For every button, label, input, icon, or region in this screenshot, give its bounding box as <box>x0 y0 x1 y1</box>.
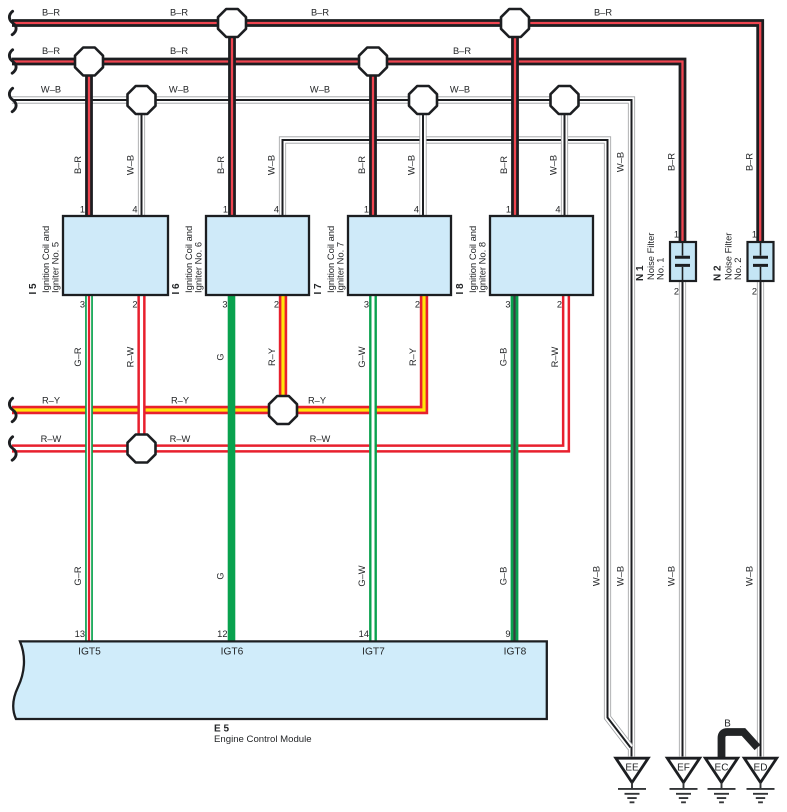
svg-text:W–B: W–B <box>169 85 189 95</box>
svg-text:I 7: I 7 <box>313 283 324 295</box>
junction node row 3 / I7 pin 4 <box>409 86 437 114</box>
svg-text:B–R: B–R <box>357 156 367 174</box>
svg-text:I 6: I 6 <box>171 283 182 295</box>
svg-text:1: 1 <box>674 230 679 240</box>
svg-text:W–B: W–B <box>667 566 677 586</box>
svg-text:B–R: B–R <box>73 156 83 174</box>
svg-text:4: 4 <box>274 205 279 215</box>
junction node row 1 / I6 pin 1 <box>218 9 246 37</box>
wire B-R bus row 1 (top) to noise filter N2 <box>12 23 760 242</box>
ignition coil and igniter I8 box <box>490 216 593 295</box>
wire W-B from noise filter N2 to ground ED <box>757 280 764 757</box>
svg-text:IGT8: IGT8 <box>504 646 527 657</box>
junction node row 2 / I7 pin 1 <box>359 48 387 76</box>
wire W-B from row 3 junction to I5 pin 4 <box>138 100 145 217</box>
svg-text:3: 3 <box>80 300 85 310</box>
svg-text:W–B: W–B <box>41 85 61 95</box>
noise filter N2 box <box>748 242 774 281</box>
svg-text:B–R: B–R <box>170 8 188 18</box>
svg-text:3: 3 <box>222 300 227 310</box>
svg-text:R–W: R–W <box>310 434 331 444</box>
shield B thick hook to ground EC <box>722 732 758 759</box>
junction node row 3 / I8 pin 4 <box>551 86 579 114</box>
svg-text:B–R: B–R <box>453 46 471 56</box>
svg-text:W–B: W–B <box>267 155 277 175</box>
svg-text:4: 4 <box>132 205 137 215</box>
svg-text:3: 3 <box>505 300 510 310</box>
ignition coil and igniter I6 box <box>206 216 309 295</box>
ground ED <box>744 758 776 782</box>
wire R-W bus row to I8 pin 2 <box>12 294 566 449</box>
svg-text:I 8: I 8 <box>455 283 466 295</box>
wire W-B from row 3 junction to I7 pin 4 <box>419 100 426 217</box>
svg-text:W–B: W–B <box>310 85 330 95</box>
svg-text:W–B: W–B <box>450 85 470 95</box>
svg-text:3: 3 <box>364 300 369 310</box>
svg-text:2: 2 <box>557 300 562 310</box>
svg-text:IGT5: IGT5 <box>78 646 101 657</box>
junction node row 1 / I8 pin 1 <box>501 9 529 37</box>
ignition coil and igniter I7 box <box>348 216 451 295</box>
svg-text:W–B: W–B <box>549 155 559 175</box>
ground EC <box>705 758 737 782</box>
wire B-R from row 1 junction to I6 pin 1 <box>228 23 236 217</box>
wire W-B from row 3 junction to I8 pin 4 <box>561 100 568 217</box>
svg-text:B–R: B–R <box>594 8 612 18</box>
svg-text:2: 2 <box>274 300 279 310</box>
svg-text:ED: ED <box>754 763 768 774</box>
break symbol row 3 <box>9 88 16 111</box>
earth symbol under ED <box>747 783 775 803</box>
svg-text:G–W: G–W <box>357 565 367 586</box>
svg-text:B–R: B–R <box>745 153 755 171</box>
wire R-Y bus row to I7 pin 2 <box>12 294 424 410</box>
break symbol row 2 <box>9 50 16 73</box>
svg-text:9: 9 <box>505 629 510 639</box>
svg-text:Ignition Coil andIgniter No. 6: Ignition Coil andIgniter No. 6 <box>183 226 203 293</box>
svg-text:R–Y: R–Y <box>171 396 189 406</box>
svg-text:Ignition Coil andIgniter No. 8: Ignition Coil andIgniter No. 8 <box>467 226 487 293</box>
wire G-W from I7 pin 3 to ECM IGT7 <box>369 294 377 642</box>
svg-text:2: 2 <box>132 300 137 310</box>
svg-text:B–R: B–R <box>499 156 509 174</box>
svg-text:G: G <box>216 572 226 579</box>
wire W-B bus row 3 to ground EE <box>12 100 632 757</box>
junction node row 2 / I5 pin 1 <box>75 48 103 76</box>
earth symbol under EE <box>618 783 646 803</box>
svg-text:W–B: W–B <box>745 566 755 586</box>
svg-text:G–R: G–R <box>73 566 83 585</box>
svg-text:I 5: I 5 <box>28 283 39 295</box>
svg-text:B–R: B–R <box>42 46 60 56</box>
svg-text:W–B: W–B <box>616 566 626 586</box>
svg-text:W–B: W–B <box>592 566 602 586</box>
ignition coil and igniter I5 box <box>63 216 168 295</box>
break symbol R-Y bus <box>9 398 16 421</box>
svg-text:2: 2 <box>752 287 757 297</box>
svg-text:EC: EC <box>715 763 729 774</box>
svg-text:B–R: B–R <box>170 46 188 56</box>
svg-text:W–B: W–B <box>126 155 136 175</box>
svg-text:B–R: B–R <box>311 8 329 18</box>
svg-text:Engine Control Module: Engine Control Module <box>214 734 312 745</box>
svg-text:Noise FilterNo. 2: Noise FilterNo. 2 <box>723 233 743 280</box>
ground EF <box>667 758 699 782</box>
engine control module E5 box <box>13 641 547 719</box>
svg-text:B–R: B–R <box>216 156 226 174</box>
wire R-Y from I6 pin 2 to R-Y bus junction <box>279 294 287 410</box>
junction node R-Y bus / I6 pin 2 <box>269 396 297 424</box>
svg-text:R–Y: R–Y <box>42 396 60 406</box>
svg-text:G–B: G–B <box>499 567 509 586</box>
wire G from I6 pin 3 to ECM IGT6 <box>228 294 236 642</box>
svg-text:R–W: R–W <box>170 434 191 444</box>
wire B-R from row 1 junction to I8 pin 1 <box>511 23 519 217</box>
svg-text:W–B: W–B <box>407 155 417 175</box>
svg-text:G–R: G–R <box>73 347 83 366</box>
svg-text:R–W: R–W <box>550 346 560 367</box>
svg-text:R–W: R–W <box>41 434 62 444</box>
break symbol row 1 <box>9 11 16 34</box>
svg-text:1: 1 <box>506 205 511 215</box>
svg-text:1: 1 <box>80 205 85 215</box>
svg-text:G: G <box>216 353 226 360</box>
noise filter N1 box <box>670 242 696 281</box>
wire G-B from I8 pin 3 to ECM IGT8 <box>511 294 519 642</box>
svg-text:B–R: B–R <box>42 8 60 18</box>
break symbol R-W bus <box>9 437 16 460</box>
svg-text:12: 12 <box>217 629 227 639</box>
capacitor symbol inside N2 <box>760 243 762 280</box>
svg-text:Noise FilterNo. 1: Noise FilterNo. 1 <box>645 233 665 280</box>
earth symbol under EF <box>670 783 698 803</box>
svg-text:1: 1 <box>223 205 228 215</box>
ground EE <box>616 758 648 782</box>
svg-text:Ignition Coil andIgniter No. 5: Ignition Coil andIgniter No. 5 <box>40 226 60 293</box>
svg-text:W–B: W–B <box>616 152 626 172</box>
wire B-R from row 2 junction to I7 pin 1 <box>369 62 377 218</box>
wire R-W from I5 pin 2 to R-W bus junction <box>137 294 145 449</box>
svg-text:EF: EF <box>677 763 690 774</box>
svg-text:4: 4 <box>414 205 419 215</box>
svg-text:Ignition Coil andIgniter No. 7: Ignition Coil andIgniter No. 7 <box>325 226 345 293</box>
svg-text:2: 2 <box>415 300 420 310</box>
junction node row 3 / I5 pin 4 <box>128 86 156 114</box>
svg-text:R–Y: R–Y <box>408 348 418 366</box>
earth symbol under EC <box>708 783 736 803</box>
svg-text:2: 2 <box>674 287 679 297</box>
svg-text:R–Y: R–Y <box>267 348 277 366</box>
wire G-R from I5 pin 3 to ECM IGT5 <box>85 294 93 642</box>
capacitor symbol inside N1 <box>682 243 684 280</box>
svg-text:E 5: E 5 <box>214 724 229 735</box>
svg-text:4: 4 <box>555 205 560 215</box>
svg-text:R–Y: R–Y <box>308 396 326 406</box>
svg-text:EE: EE <box>625 763 639 774</box>
svg-text:IGT7: IGT7 <box>362 646 385 657</box>
svg-text:B: B <box>724 719 731 730</box>
wire W-B from noise filter N1 to ground EF <box>679 280 686 757</box>
svg-text:1: 1 <box>752 230 757 240</box>
wire B-R from row 2 junction to I5 pin 1 <box>85 62 93 218</box>
svg-text:G–B: G–B <box>499 348 509 367</box>
junction node R-W bus / I5 pin 2 <box>128 435 156 463</box>
svg-text:R–W: R–W <box>126 346 136 367</box>
svg-text:G–W: G–W <box>357 346 367 367</box>
svg-text:B–R: B–R <box>667 153 677 171</box>
svg-text:1: 1 <box>364 205 369 215</box>
svg-text:IGT6: IGT6 <box>221 646 244 657</box>
svg-text:13: 13 <box>75 629 85 639</box>
wire W-B from I6 pin 4 to ground EE <box>283 140 631 748</box>
wire B-R bus row 2 to noise filter N1 <box>12 62 683 243</box>
svg-text:14: 14 <box>359 629 369 639</box>
